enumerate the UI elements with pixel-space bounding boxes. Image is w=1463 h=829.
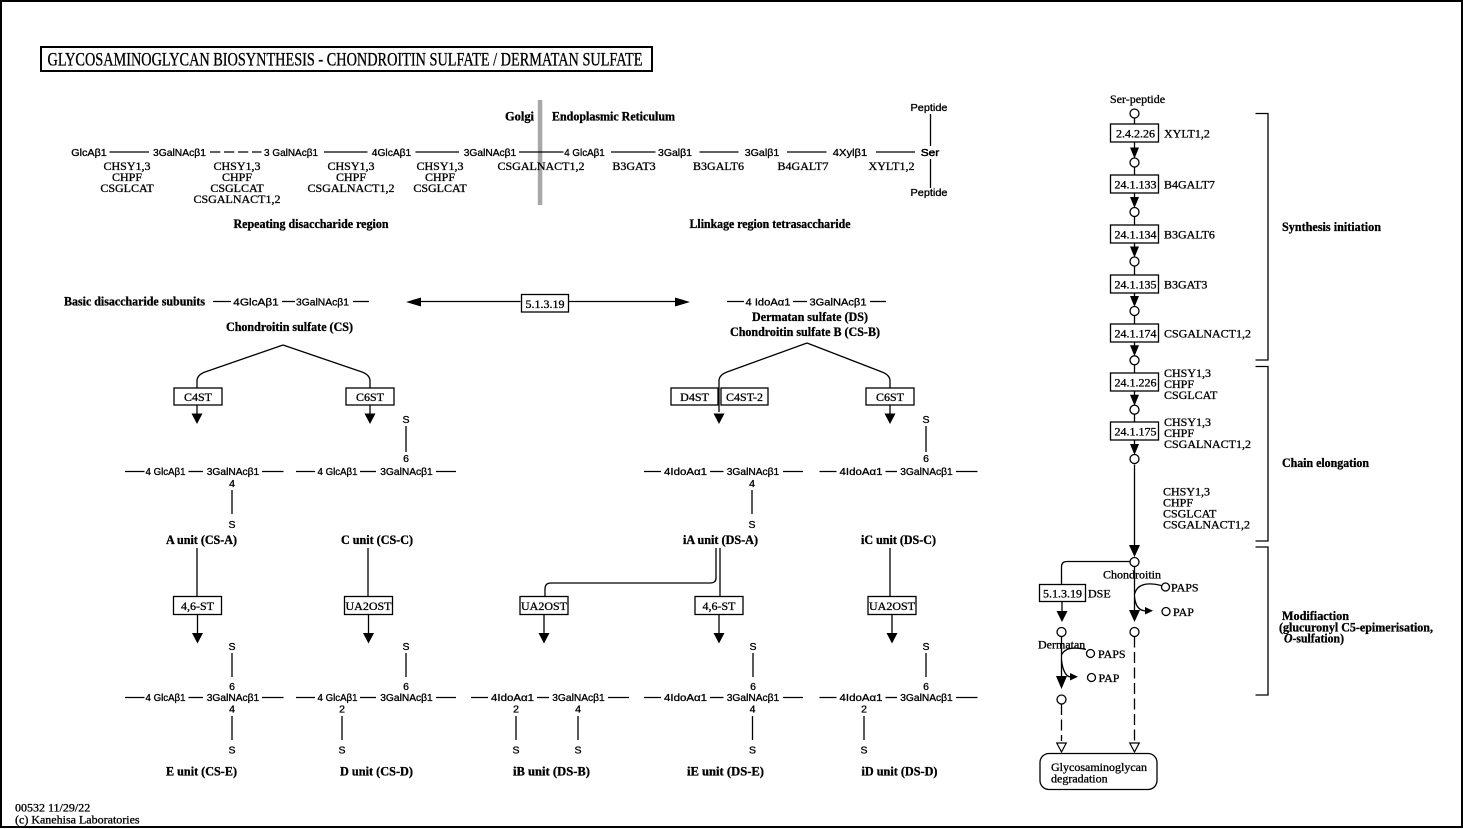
svg-text:6: 6 xyxy=(923,681,929,693)
svg-text:4IdoAα1: 4IdoAα1 xyxy=(664,466,707,478)
svg-text:Ser: Ser xyxy=(921,147,940,159)
svg-text:4: 4 xyxy=(575,704,581,716)
svg-text:24.1.135: 24.1.135 xyxy=(1115,278,1157,292)
svg-text:4: 4 xyxy=(229,704,235,716)
svg-text:GlcAβ1: GlcAβ1 xyxy=(71,147,107,159)
svg-text:S: S xyxy=(860,745,867,757)
svg-text:PAPS: PAPS xyxy=(1098,647,1126,661)
svg-text:S: S xyxy=(512,745,519,757)
svg-text:3Galβ1: 3Galβ1 xyxy=(745,147,780,159)
svg-text:4GlcAβ1: 4GlcAβ1 xyxy=(233,297,279,309)
svg-text:4IdoAα1: 4IdoAα1 xyxy=(840,466,883,478)
svg-text:3GalNAcβ1: 3GalNAcβ1 xyxy=(727,466,780,478)
svg-text:XYLT1,2: XYLT1,2 xyxy=(869,159,915,173)
svg-text:PAPS: PAPS xyxy=(1171,581,1199,595)
svg-text:B3GALT6: B3GALT6 xyxy=(693,159,744,173)
svg-text:PAP: PAP xyxy=(1173,605,1194,619)
svg-text:CSGALNACT1,2: CSGALNACT1,2 xyxy=(1164,437,1251,451)
svg-text:6: 6 xyxy=(403,681,409,693)
svg-text:UA2OST: UA2OST xyxy=(521,599,568,613)
svg-text:CSGALNACT1,2: CSGALNACT1,2 xyxy=(1163,518,1250,532)
svg-text:6: 6 xyxy=(229,681,235,693)
svg-text:4 GlcAβ1: 4 GlcAβ1 xyxy=(146,692,186,704)
svg-text:6: 6 xyxy=(750,681,756,693)
svg-text:3GalNAcβ1: 3GalNAcβ1 xyxy=(552,692,605,704)
svg-text:C4ST: C4ST xyxy=(184,390,213,404)
svg-text:UA2OST: UA2OST xyxy=(345,599,392,613)
svg-text:Llinkage region tetrasaccharid: Llinkage region tetrasaccharide xyxy=(690,216,851,231)
svg-text:3GalNAcβ1: 3GalNAcβ1 xyxy=(900,692,953,704)
svg-text:CSGALNACT1,2: CSGALNACT1,2 xyxy=(497,159,584,173)
svg-text:CSGLCAT: CSGLCAT xyxy=(1164,388,1218,402)
svg-text:iE unit (DS-E): iE unit (DS-E) xyxy=(687,764,764,779)
svg-text:S: S xyxy=(574,745,581,757)
svg-text:UA2OST: UA2OST xyxy=(869,599,916,613)
svg-text:A unit (CS-A): A unit (CS-A) xyxy=(166,532,237,547)
svg-text:24.1.134: 24.1.134 xyxy=(1115,228,1157,242)
svg-text:S: S xyxy=(338,745,345,757)
svg-text:6: 6 xyxy=(403,453,409,465)
svg-text:Chondroitin sulfate (CS): Chondroitin sulfate (CS) xyxy=(226,319,353,334)
svg-text:Golgi: Golgi xyxy=(505,109,534,124)
svg-text:iA unit (DS-A): iA unit (DS-A) xyxy=(683,532,758,547)
svg-text:DSE: DSE xyxy=(1088,587,1111,601)
svg-text:E unit (CS-E): E unit (CS-E) xyxy=(166,764,237,779)
svg-text:3GalNAcβ1: 3GalNAcβ1 xyxy=(296,297,349,309)
svg-text:Ser-peptide: Ser-peptide xyxy=(1110,92,1165,106)
svg-text:3Galβ1: 3Galβ1 xyxy=(658,147,692,159)
svg-text:24.1.175: 24.1.175 xyxy=(1115,425,1157,439)
svg-text:3GalNAcβ1: 3GalNAcβ1 xyxy=(380,692,433,704)
svg-text:PAP: PAP xyxy=(1099,671,1120,685)
svg-text:4 GlcAβ1: 4 GlcAβ1 xyxy=(318,692,358,704)
svg-text:iB unit (DS-B): iB unit (DS-B) xyxy=(513,764,590,779)
svg-text:4,6-ST: 4,6-ST xyxy=(703,599,737,613)
svg-text:S: S xyxy=(228,519,235,531)
svg-text:B4GALT7: B4GALT7 xyxy=(778,159,829,173)
svg-text:5.1.3.19: 5.1.3.19 xyxy=(526,297,565,311)
svg-text:2: 2 xyxy=(861,704,867,716)
svg-text:Peptide: Peptide xyxy=(911,187,948,199)
svg-text:CSGALNACT1,2: CSGALNACT1,2 xyxy=(193,192,280,206)
svg-text:4GlcAβ1: 4GlcAβ1 xyxy=(372,147,412,159)
svg-text:4 GlcAβ1: 4 GlcAβ1 xyxy=(146,466,186,478)
svg-text:S: S xyxy=(922,414,929,426)
svg-text:C unit (CS-C): C unit (CS-C) xyxy=(341,532,413,547)
svg-text:Dermatan sulfate (DS): Dermatan sulfate (DS) xyxy=(752,309,868,324)
svg-text:iC unit (DS-C): iC unit (DS-C) xyxy=(861,532,936,547)
svg-text:C4ST-2: C4ST-2 xyxy=(726,390,763,404)
svg-text:D4ST: D4ST xyxy=(680,390,709,404)
svg-text:4IdoAα1: 4IdoAα1 xyxy=(491,692,534,704)
svg-text:24.1.174: 24.1.174 xyxy=(1115,327,1157,341)
svg-text:Basic disaccharide subunits: Basic disaccharide subunits xyxy=(64,294,205,309)
svg-text:3GalNAcβ1: 3GalNAcβ1 xyxy=(380,466,433,478)
svg-text:C6ST: C6ST xyxy=(876,390,905,404)
svg-text:2: 2 xyxy=(513,704,519,716)
svg-text:XYLT1,2: XYLT1,2 xyxy=(1164,127,1210,141)
svg-text:CSGALNACT1,2: CSGALNACT1,2 xyxy=(1164,327,1251,341)
svg-text:CSGLCAT: CSGLCAT xyxy=(413,181,467,195)
svg-text:2.4.2.26: 2.4.2.26 xyxy=(1116,127,1155,141)
svg-text:GLYCOSAMINOGLYCAN BIOSYNTHESI: GLYCOSAMINOGLYCAN BIOSYNTHESIS - CHONDRO… xyxy=(48,50,643,71)
svg-text:S: S xyxy=(228,641,235,653)
svg-text:S: S xyxy=(402,641,409,653)
svg-text:3GalNAcβ1: 3GalNAcβ1 xyxy=(810,297,867,309)
svg-text:3GalNAcβ1: 3GalNAcβ1 xyxy=(727,692,780,704)
svg-text:2: 2 xyxy=(339,704,345,716)
svg-text:B4GALT7: B4GALT7 xyxy=(1164,178,1215,192)
svg-text:Peptide: Peptide xyxy=(911,102,948,114)
svg-text:3GalNAcβ1: 3GalNAcβ1 xyxy=(153,147,206,159)
svg-text:Endoplasmic Reticulum: Endoplasmic Reticulum xyxy=(552,109,675,124)
svg-text:4IdoAα1: 4IdoAα1 xyxy=(840,692,883,704)
svg-text:iD unit (DS-D): iD unit (DS-D) xyxy=(862,764,938,779)
svg-text:Chain elongation: Chain elongation xyxy=(1282,455,1370,470)
svg-text:3GalNAcβ1: 3GalNAcβ1 xyxy=(464,147,517,159)
svg-text:degradation: degradation xyxy=(1051,772,1108,786)
svg-text:O-sulfation): O-sulfation) xyxy=(1284,631,1344,646)
svg-text:Repeating disaccharide region: Repeating disaccharide region xyxy=(234,216,390,231)
svg-text:B3GAT3: B3GAT3 xyxy=(612,159,655,173)
svg-text:24.1.226: 24.1.226 xyxy=(1115,376,1157,390)
svg-text:S: S xyxy=(402,414,409,426)
svg-text:4 GlcAβ1: 4 GlcAβ1 xyxy=(564,147,605,159)
svg-text:(c) Kanehisa Laboratories: (c) Kanehisa Laboratories xyxy=(15,813,140,827)
svg-text:CSGLCAT: CSGLCAT xyxy=(100,181,154,195)
svg-text:3GalNAcβ1: 3GalNAcβ1 xyxy=(900,466,953,478)
svg-text:3 GalNAcβ1: 3 GalNAcβ1 xyxy=(264,147,318,159)
svg-text:5.1.3.19: 5.1.3.19 xyxy=(1043,587,1082,601)
svg-text:Chondroitin sulfate B (CS-B): Chondroitin sulfate B (CS-B) xyxy=(730,324,880,339)
svg-text:S: S xyxy=(749,745,756,757)
svg-text:CSGALNACT1,2: CSGALNACT1,2 xyxy=(307,181,394,195)
svg-text:S: S xyxy=(922,641,929,653)
svg-text:Chondroitin: Chondroitin xyxy=(1103,568,1161,582)
svg-text:B3GAT3: B3GAT3 xyxy=(1164,278,1207,292)
svg-text:Dermatan: Dermatan xyxy=(1038,638,1085,652)
svg-text:4,6-ST: 4,6-ST xyxy=(181,599,215,613)
svg-text:4: 4 xyxy=(229,478,235,490)
svg-text:3GalNAcβ1: 3GalNAcβ1 xyxy=(207,466,260,478)
svg-text:3GalNAcβ1: 3GalNAcβ1 xyxy=(207,692,260,704)
svg-text:4Xylβ1: 4Xylβ1 xyxy=(833,147,868,159)
svg-text:4 GlcAβ1: 4 GlcAβ1 xyxy=(318,466,358,478)
svg-text:6: 6 xyxy=(923,453,929,465)
svg-text:Synthesis initiation: Synthesis initiation xyxy=(1282,219,1382,234)
svg-text:4: 4 xyxy=(749,478,755,490)
svg-text:4IdoAα1: 4IdoAα1 xyxy=(664,692,707,704)
svg-text:D unit (CS-D): D unit (CS-D) xyxy=(340,764,413,779)
svg-text:C6ST: C6ST xyxy=(356,390,385,404)
svg-text:4 IdoAα1: 4 IdoAα1 xyxy=(746,297,791,309)
svg-text:B3GALT6: B3GALT6 xyxy=(1164,228,1215,242)
svg-text:S: S xyxy=(749,641,756,653)
svg-text:24.1.133: 24.1.133 xyxy=(1115,178,1157,192)
svg-text:S: S xyxy=(228,745,235,757)
svg-text:S: S xyxy=(748,519,755,531)
svg-text:4: 4 xyxy=(750,704,756,716)
